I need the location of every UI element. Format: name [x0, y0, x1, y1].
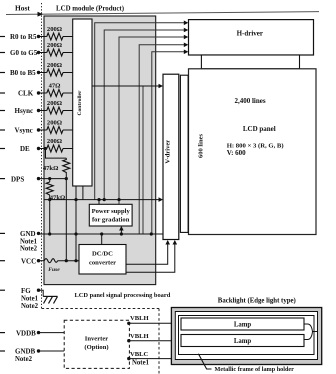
wire VBLH upper to lamp1 — [129, 322, 181, 324]
svg-text:200Ω: 200Ω — [47, 119, 62, 126]
junction bus/DCDC — [100, 232, 103, 235]
svg-text:V: 600: V: 600 — [227, 149, 246, 157]
junction rail/bus3 — [117, 198, 120, 201]
svg-text:Metallic frame of lamp holder: Metallic frame of lamp holder — [215, 366, 295, 373]
svg-text:DPS: DPS — [11, 175, 24, 183]
ground (chassis) — [43, 296, 57, 303]
wire bus2 to H-driver — [104, 30, 184, 200]
backlight frame middle — [175, 312, 317, 360]
wire DC/DC out2 to V-driver bottom — [126, 241, 175, 272]
junction DPS/47k1 leg — [65, 177, 68, 180]
wire bus4 to H-driver — [139, 45, 184, 234]
wire lamp series bracket — [304, 324, 313, 340]
module boundary dotted vertical — [41, 3, 43, 309]
wire bus1 to H-driver (innermost) — [95, 23, 185, 200]
wire CLK row — [39, 92, 47, 94]
svg-text:DC/DC: DC/DC — [92, 251, 113, 258]
wire GND bus — [39, 233, 164, 235]
svg-text:VDDB: VDDB — [16, 329, 36, 337]
resistor 200ohm (B row) — [47, 62, 63, 76]
wire GNDB to inverter — [39, 350, 65, 352]
svg-text:R0 to R5: R0 to R5 — [10, 33, 37, 41]
wire vertical mid — [142, 86, 144, 234]
svg-text:Note2: Note2 — [15, 356, 33, 363]
svg-text:600 lines: 600 lines — [197, 134, 204, 158]
wire FG to chassis ground — [39, 290, 44, 296]
node VBLH upper — [127, 315, 149, 325]
junction bus/47k2 — [48, 232, 51, 235]
svg-text:LCD module (Product): LCD module (Product) — [56, 6, 124, 13]
svg-text:GND: GND — [20, 230, 36, 238]
wire G row — [39, 52, 47, 54]
junction bus/bus5 — [150, 232, 153, 235]
wire CLK row to controller — [63, 92, 73, 94]
svg-text:47Ω: 47Ω — [49, 82, 61, 89]
svg-text:DE: DE — [20, 145, 30, 153]
wire VBLH lower to lamp2 — [129, 340, 181, 342]
wire supply rail to V-driver — [45, 199, 160, 201]
node GNDB — [0, 348, 40, 364]
wire G row to controller — [63, 52, 73, 54]
svg-text:47kΩ: 47kΩ — [43, 165, 59, 172]
resistor 47k (vertical, lower) — [46, 179, 65, 202]
wire bus to power supply (arrow up) — [120, 227, 122, 234]
svg-text:200Ω: 200Ω — [47, 26, 62, 33]
svg-text:Note1: Note1 — [20, 239, 38, 246]
wire bracket tip — [313, 331, 318, 333]
H-driver box — [189, 20, 314, 55]
controller U (Controller) — [73, 19, 92, 186]
node DPS — [0, 175, 40, 183]
svg-text:LCD panel: LCD panel — [243, 125, 276, 133]
wire B row — [39, 72, 47, 74]
junction bus/VCC feed — [74, 232, 77, 235]
svg-text:47kΩ: 47kΩ — [50, 194, 66, 201]
svg-text:converter: converter — [89, 260, 116, 267]
svg-text:Note2: Note2 — [20, 246, 38, 253]
wire controller to V-driver — [92, 85, 159, 87]
module boundary dashed vertical right — [158, 309, 160, 374]
svg-text:Note1: Note1 — [132, 359, 150, 366]
wire controller bottom to VCC line — [75, 186, 77, 261]
junction rail/47k2 — [48, 198, 51, 201]
wire bus3 to H-driver — [119, 37, 185, 204]
power supply box — [89, 204, 132, 226]
H-driver to panel connector — [201, 55, 299, 69]
backlight metallic frame (outer) — [171, 308, 321, 365]
junction VCC/47k1 — [65, 259, 68, 262]
svg-text:Note1: Note1 — [21, 295, 39, 302]
svg-text:Host: Host — [15, 4, 30, 13]
svg-text:FG: FG — [21, 287, 31, 295]
svg-text:Controller: Controller — [77, 90, 83, 116]
wire B row to controller — [63, 72, 73, 74]
svg-text:200Ω: 200Ω — [47, 42, 62, 49]
node VCC — [0, 257, 40, 265]
svg-text:Vsync: Vsync — [15, 127, 33, 135]
lamp 1 — [181, 318, 304, 330]
wire 47k lower to GND bus — [49, 195, 51, 234]
module boundary dashed horizontal bottom — [42, 308, 160, 310]
wire top line across — [6, 12, 319, 15]
resistor 200ohm (Vsync row) — [47, 119, 63, 133]
wire R row to controller — [63, 36, 73, 38]
wire bus5 to H-driver — [152, 52, 185, 234]
junction on DE row — [44, 147, 47, 150]
svg-text:G0 to G5: G0 to G5 — [10, 49, 38, 57]
svg-text:Lamp: Lamp — [234, 338, 252, 345]
resistor 200ohm (Hsync row) — [47, 100, 63, 114]
svg-text:LCD panel signal processing bo: LCD panel signal processing board — [75, 292, 171, 299]
wire R row — [39, 36, 47, 38]
node VBLC — [127, 351, 149, 366]
node CLK — [0, 90, 40, 98]
resistor 200ohm (DE row) — [47, 138, 63, 152]
node VBLH lower — [127, 333, 149, 342]
wire arrow at module boundary — [38, 12, 44, 17]
wire Vsync row — [39, 129, 47, 131]
wire Vsync row to controller — [63, 129, 73, 131]
svg-text:Inverter: Inverter — [85, 336, 109, 343]
node VDDB — [0, 329, 40, 337]
svg-text:for gradation: for gradation — [92, 217, 130, 224]
svg-text:V-driver: V-driver — [165, 140, 172, 164]
lamp 2 — [181, 335, 304, 347]
svg-text:Fuse: Fuse — [48, 267, 60, 273]
node DE — [0, 145, 40, 153]
junction VCC/feed — [74, 259, 77, 262]
node FG — [0, 287, 40, 310]
svg-text:CLK: CLK — [18, 90, 34, 98]
wire DC/DC out1 to V-driver bottom — [126, 241, 168, 264]
junction rail/power stub — [97, 198, 100, 201]
board (LCD panel signal processing board, gray) — [44, 16, 156, 285]
backlight inner holder — [179, 316, 315, 355]
wire DPS row — [39, 178, 67, 180]
svg-text:2,400 lines: 2,400 lines — [234, 97, 265, 105]
svg-text:H-driver: H-driver — [237, 29, 263, 37]
svg-text:Lamp: Lamp — [234, 322, 252, 329]
node Hsync — [0, 107, 40, 115]
metallic frame label leader — [198, 354, 211, 369]
svg-text:Power supply: Power supply — [92, 208, 131, 215]
LCD panel box — [189, 69, 317, 235]
V-driver to panel connector — [180, 75, 188, 232]
wire DE branch down to 47k pull-up — [46, 149, 67, 159]
junction bus/power arrow — [120, 232, 123, 235]
wire bus down to DC/DC — [101, 234, 103, 245]
svg-text:Hsync: Hsync — [15, 107, 34, 115]
wire controller bottom to rail — [82, 186, 84, 200]
junction rail/VCC feed — [74, 198, 77, 201]
wire VBLC to frame — [129, 358, 173, 360]
svg-text:Backlight (Edge light type): Backlight (Edge light type) — [218, 297, 296, 304]
wire stub rail to power supply — [98, 200, 100, 205]
wire VDDB to inverter — [39, 332, 65, 334]
svg-text:200Ω: 200Ω — [47, 138, 62, 145]
svg-text:VBLH: VBLH — [130, 315, 150, 322]
wire DE row to controller — [63, 148, 73, 150]
svg-text:200Ω: 200Ω — [47, 100, 62, 107]
node Vsync — [0, 127, 40, 135]
junction DPS/47k2 — [48, 177, 51, 180]
inverter box (dashed, option) — [64, 320, 129, 368]
fuse F1 — [44, 259, 60, 273]
svg-text:VBLC: VBLC — [130, 351, 149, 358]
svg-text:200Ω: 200Ω — [47, 62, 62, 69]
wire DE row — [39, 148, 47, 150]
wire VCC to fuse — [39, 260, 45, 262]
node GND — [0, 230, 40, 253]
svg-text:(Option): (Option) — [84, 344, 108, 351]
resistor 200ohm (G row) — [47, 42, 63, 56]
node B0 to B5 — [0, 69, 40, 77]
resistor 47k (vertical, upper) — [43, 158, 70, 174]
wire 47k upper down to VCC line — [65, 174, 67, 261]
svg-text:GNDB: GNDB — [15, 348, 36, 356]
wire Hsync row — [39, 110, 47, 112]
resistor 200ohm (R row) — [47, 26, 63, 40]
resistor 47ohm (CLK row) — [47, 82, 63, 96]
wire Hsync row to controller — [63, 110, 73, 112]
node R0 to R5 — [0, 33, 40, 41]
svg-text:VCC: VCC — [21, 257, 36, 265]
node G0 to G5 — [0, 49, 40, 57]
svg-text:Note2: Note2 — [21, 303, 39, 310]
junction rail/bus2 — [103, 198, 106, 201]
V-driver box — [163, 74, 179, 239]
svg-text:B0 to B5: B0 to B5 — [10, 69, 36, 77]
DC/DC converter box — [79, 245, 126, 275]
wire fuse to DC/DC — [58, 260, 79, 262]
svg-text:VBLH: VBLH — [130, 333, 150, 340]
